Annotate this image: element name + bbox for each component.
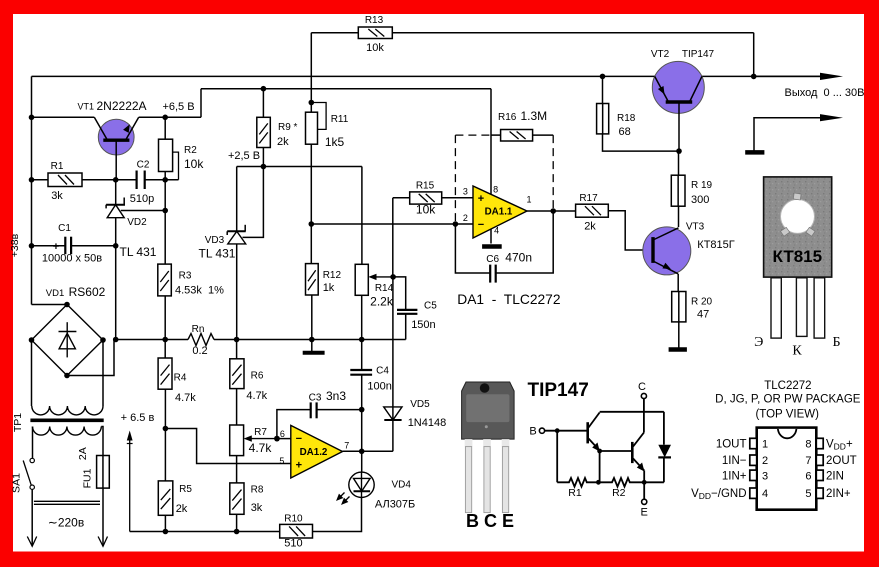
resistor R8 3k: [230, 483, 264, 514]
wire R17 to VT3 base: [608, 211, 653, 250]
potentiometer R7 4.7k: [230, 425, 273, 456]
node R7 wiper pin6: [274, 436, 280, 442]
svg-text:C4: C4: [376, 366, 389, 377]
svg-text:Rn: Rn: [192, 324, 205, 335]
svg-text:TP1: TP1: [12, 413, 24, 432]
svg-text:VT3: VT3: [686, 222, 705, 233]
svg-text:DA1.1: DA1.1: [485, 207, 513, 218]
node R14/C4: [359, 337, 365, 343]
wire +6.5V rail: [201, 88, 491, 90]
node VT2 collector: [676, 148, 682, 154]
resistor R13: [358, 15, 392, 54]
svg-text:Э: Э: [754, 335, 763, 350]
wire bridge bottom jog to gnd bus: [67, 340, 114, 376]
svg-text:8: 8: [493, 185, 498, 195]
svg-text:B: B: [529, 426, 536, 438]
wire VD5 bottom: [392, 420, 394, 451]
node VD3/R6: [234, 337, 240, 343]
svg-text:+38в: +38в: [9, 233, 21, 257]
node bus C1: [29, 243, 35, 249]
node DA1.1 pin2 right: [453, 221, 459, 227]
node +6.5V rail R9: [261, 86, 267, 92]
wire R6 to R7: [236, 389, 238, 425]
wire C3 right: [317, 409, 362, 411]
svg-text:1N4148: 1N4148: [408, 417, 447, 429]
node VT1 base: [113, 177, 119, 183]
TIP147 package photo: [462, 382, 514, 531]
capacitor C1 10000x50: [42, 223, 102, 265]
node gnd symbol: [309, 337, 315, 343]
svg-text:1k: 1k: [323, 282, 335, 294]
wire VD2 ref: [121, 210, 165, 212]
capacitor C4 100n: [350, 366, 392, 393]
ground bar DA1.1 pin4: [482, 244, 502, 249]
svg-text:R11: R11: [331, 114, 349, 125]
svg-text:4.53k 1%: 4.53k 1%: [175, 285, 224, 297]
svg-text:5: 5: [279, 456, 284, 466]
svg-text:R15: R15: [416, 181, 435, 192]
svg-text:R 19: R 19: [691, 180, 713, 191]
svg-text:∼220в: ∼220в: [48, 516, 84, 530]
capacitor C2 510p: [130, 160, 154, 206]
transistor VT2 TIP147: [651, 49, 715, 151]
svg-text:R14: R14: [375, 283, 394, 294]
wire DA1.2 out: [343, 450, 393, 452]
svg-text:4.7k: 4.7k: [249, 441, 273, 455]
node DA1.1 out: [550, 208, 556, 214]
svg-text:R3: R3: [179, 271, 192, 282]
svg-text:4.7k: 4.7k: [246, 390, 267, 402]
svg-text:R5: R5: [179, 484, 192, 495]
svg-text:−: −: [478, 219, 484, 231]
svg-text:10000 x 50в: 10000 x 50в: [42, 253, 102, 265]
node C3/C4/VD5 link: [359, 407, 365, 413]
svg-text:10k: 10k: [366, 42, 384, 54]
mains arrow left: [27, 537, 36, 547]
svg-text:3: 3: [463, 187, 468, 197]
svg-text:Б: Б: [832, 335, 840, 350]
svg-text:R4: R4: [174, 373, 187, 384]
svg-text:DA1 - TLC2272: DA1 - TLC2272: [457, 292, 560, 307]
wire FU1 down: [102, 488, 104, 546]
wire R14 bottom: [361, 295, 363, 370]
wire C5 top link: [393, 277, 406, 310]
svg-text:3k: 3k: [51, 190, 63, 202]
svg-text:3: 3: [762, 470, 768, 482]
svg-text:+ 6.5 в: + 6.5 в: [121, 412, 155, 424]
svg-text:470n: 470n: [505, 251, 532, 265]
svg-text:TL 431: TL 431: [120, 245, 157, 259]
svg-text:+: +: [53, 241, 59, 253]
node R11 top: [309, 100, 315, 106]
svg-text:R7: R7: [254, 427, 267, 438]
node R4/R5: [163, 426, 169, 432]
wiper arrow R7: [244, 435, 277, 441]
svg-text:R1: R1: [568, 487, 582, 499]
resistor R17 2k: [576, 193, 609, 233]
wire +2.5V line: [237, 166, 362, 168]
svg-text:+6,5 В: +6,5 В: [162, 101, 194, 113]
svg-text:КТ815Г: КТ815Г: [697, 239, 734, 251]
wire DA1.2 out to VD4: [361, 451, 363, 472]
svg-text:10k: 10k: [416, 203, 436, 217]
node +6.5V: [162, 115, 168, 121]
svg-text:+2,5 В: +2,5 В: [228, 150, 260, 162]
wire R12 top lead: [310, 224, 312, 264]
wire VT1 emitter to +6.5V node: [139, 116, 201, 118]
svg-text:TLC2272: TLC2272: [764, 380, 811, 392]
node bridge bottom: [64, 373, 70, 379]
wire gnd bus right: [214, 339, 406, 341]
wire gnd bus left: [116, 339, 188, 341]
capacitor C6 470n: [486, 251, 532, 283]
capacitor C3 3n3: [309, 389, 347, 418]
wire +6.5V to R2: [164, 117, 166, 139]
wire R9 bottom: [262, 148, 264, 167]
svg-text:C2: C2: [137, 160, 150, 171]
resistor R4 4.7k: [158, 358, 196, 404]
resistor R5 2k: [158, 481, 192, 515]
resistor R1 3k: [48, 161, 82, 202]
svg-text:2IN: 2IN: [826, 470, 844, 482]
wire pin2 line: [311, 223, 455, 225]
resistor R11 1k5: [306, 103, 349, 150]
svg-text:R1: R1: [51, 161, 64, 172]
svg-text:VT1: VT1: [78, 102, 95, 112]
wire node down to R3 node: [164, 180, 166, 211]
svg-text:1: 1: [762, 439, 768, 451]
wire R19 bottom: [678, 206, 680, 227]
wire C4 bottom: [361, 375, 363, 452]
resistor R9 2k: [257, 117, 298, 148]
svg-text:R2: R2: [612, 487, 626, 499]
svg-text:C1: C1: [58, 223, 71, 234]
wire R9 top: [262, 89, 264, 118]
svg-text:10k: 10k: [184, 157, 204, 171]
wire primary left down: [32, 427, 34, 459]
svg-text:1IN−: 1IN−: [722, 455, 747, 467]
wire R11 top lead: [310, 103, 312, 113]
svg-text:VD3: VD3: [205, 235, 225, 246]
svg-text:TIP147: TIP147: [528, 380, 589, 401]
svg-text:R10: R10: [284, 514, 303, 525]
wire R12 bottom: [311, 295, 313, 340]
resistor R14 2.2k: [355, 264, 394, 308]
svg-text:R18: R18: [617, 113, 636, 124]
svg-text:1.3M: 1.3M: [521, 109, 548, 123]
svg-text:2A: 2A: [77, 447, 89, 460]
zener VD3 TL431: [199, 225, 246, 340]
wire R20 bottom: [678, 322, 680, 348]
resistor R6 4.7k: [230, 359, 268, 402]
mains double line: [34, 500, 100, 502]
TLC2272 DIP pinout: [691, 380, 861, 510]
svg-text:1OUT: 1OUT: [716, 439, 747, 451]
resistor R12 1k: [306, 264, 342, 295]
testpoint arrow +6.5v: [127, 431, 133, 532]
svg-text:C: C: [638, 381, 646, 393]
svg-text:R2: R2: [184, 145, 197, 156]
resistor R19 300: [671, 175, 712, 206]
node R5 bottom bus: [163, 529, 169, 535]
wire wiper node to VD5: [392, 277, 394, 420]
node R8 bottom bus: [234, 529, 240, 535]
ground symbol mid: [303, 340, 325, 353]
wire top rail to output: [32, 75, 827, 77]
wire pin2 into opamp: [455, 223, 473, 225]
node bridge left: [29, 337, 35, 343]
node DA1.1 pin2 left: [309, 221, 315, 227]
svg-text:C6: C6: [486, 254, 499, 265]
wire bus to R1: [32, 179, 49, 181]
resistor R3 4.53k: [158, 264, 224, 296]
svg-text:К: К: [792, 344, 802, 359]
wire R4 bottom: [164, 389, 166, 481]
wire R15 left lead: [393, 197, 410, 199]
wire R13 top link: [311, 32, 753, 34]
dashed box DA1.1 package: [455, 135, 553, 224]
resistor Rn 0.2 zigzag: [188, 324, 214, 357]
svg-text:3n3: 3n3: [326, 389, 346, 403]
wire bridge left down to winding: [31, 340, 33, 406]
svg-text:R9 *: R9 *: [278, 122, 298, 133]
wire R16 right lead: [533, 134, 554, 136]
svg-text:2N2222A: 2N2222A: [97, 99, 147, 113]
wire R16 left lead: [491, 134, 501, 136]
resistor R10 510: [280, 514, 313, 550]
output arrow plus: [754, 73, 843, 80]
node R14 wiper: [390, 274, 396, 280]
svg-text:R12: R12: [323, 270, 342, 281]
svg-text:−: −: [296, 433, 302, 445]
resistor R16 1.3M: [498, 109, 547, 141]
svg-text:6: 6: [280, 429, 285, 439]
svg-text:510: 510: [284, 538, 302, 550]
wire VD3 ref: [243, 167, 264, 238]
transformer TP1 primary winding: [33, 427, 102, 436]
op-amp DA1.1: [463, 185, 532, 239]
wire R15 left drop: [392, 198, 394, 277]
wire primary right down: [101, 427, 103, 456]
wire R13 left drop: [310, 33, 312, 103]
wire to DA1.2 pin5: [165, 429, 290, 464]
svg-text:1: 1: [526, 195, 531, 205]
wire R3 bottom: [164, 296, 166, 358]
svg-text:R16: R16: [498, 112, 517, 123]
svg-text:510p: 510p: [130, 193, 154, 205]
node DA1.2 out: [359, 449, 365, 455]
wire +38V to VT1 collector: [32, 116, 95, 118]
wire +2.5V to VD3: [236, 167, 238, 232]
resistor R15 10k: [410, 181, 442, 217]
svg-text:1k5: 1k5: [325, 135, 345, 149]
svg-text:C5: C5: [424, 301, 437, 312]
svg-text:6: 6: [805, 470, 811, 482]
svg-text:DA1.2: DA1.2: [300, 447, 328, 458]
svg-text:0.2: 0.2: [192, 345, 207, 357]
wire R2 bottom: [164, 172, 166, 180]
wire bus corner to bridge top: [32, 304, 68, 306]
node bridge right: [100, 337, 106, 343]
svg-text:1IN+: 1IN+: [722, 470, 747, 482]
wire R19 top lead: [678, 151, 680, 175]
resistor R18 68: [597, 104, 636, 139]
svg-text:FU1: FU1: [82, 468, 94, 488]
bridge rectifier VD1 RS602: [32, 305, 104, 376]
wire gnd column down: [115, 246, 117, 340]
svg-text:7: 7: [344, 441, 349, 451]
svg-text:VD1: VD1: [46, 288, 64, 299]
svg-text:(TOP VIEW): (TOP VIEW): [755, 409, 819, 421]
svg-text:2.2k: 2.2k: [370, 295, 394, 309]
wire R8 bottom: [236, 514, 238, 531]
wire C5 bottom: [405, 314, 407, 340]
svg-text:5: 5: [805, 488, 811, 500]
svg-text:D, JG, P, OR PW PACKAGE: D, JG, P, OR PW PACKAGE: [715, 394, 861, 406]
svg-text:VD2: VD2: [127, 217, 147, 228]
svg-text:R8: R8: [251, 485, 264, 496]
node rail R18 top: [600, 74, 606, 80]
mains arrow right: [98, 537, 107, 547]
node C3/pin6: [274, 436, 280, 442]
node bus R1: [29, 177, 35, 183]
LED VD4 AL307B: [337, 472, 415, 510]
wire bottom bus right: [313, 498, 362, 532]
node R2 bottom: [162, 177, 168, 183]
wire R5 bottom: [164, 515, 166, 531]
capacitor C5 150n: [397, 301, 437, 332]
svg-text:АЛ307Б: АЛ307Б: [375, 499, 415, 511]
wire R18 bottom: [603, 134, 680, 151]
svg-text:4.7k: 4.7k: [175, 392, 196, 404]
wire +2.5V down to R14: [361, 167, 363, 265]
svg-text:SA1: SA1: [11, 473, 23, 493]
wire +38V left bus: [31, 76, 33, 304]
wire C6 to output: [496, 211, 554, 273]
wire pin8 riser: [490, 89, 492, 195]
svg-text:2OUT: 2OUT: [826, 455, 857, 467]
switch SA1: [23, 458, 34, 489]
diode VD5 1N4148: [384, 399, 447, 429]
zener VD2 TL431: [106, 180, 157, 259]
svg-text:Выход 0 ... 30В: Выход 0 ... 30В: [785, 87, 865, 99]
wire DA1.1 output: [527, 210, 576, 212]
wire VT3 emitter lead: [677, 274, 679, 292]
resistor R2 10k: [159, 139, 205, 180]
svg-text:2k: 2k: [584, 221, 596, 233]
transformer core: [30, 418, 103, 422]
svg-text:RS602: RS602: [69, 285, 106, 299]
wire R3 node down: [164, 211, 166, 265]
wire C1 to gnd column: [71, 245, 116, 247]
svg-text:4: 4: [762, 488, 768, 500]
svg-text:3k: 3k: [251, 502, 263, 514]
TIP147 internal schematic: [539, 393, 671, 504]
node gnd bus bridge: [113, 337, 119, 343]
svg-text:2: 2: [762, 455, 768, 467]
svg-text:2k: 2k: [277, 136, 289, 148]
wire R18 top lead: [602, 76, 604, 103]
transistor VT3 KT815G: [643, 222, 735, 275]
wire R1 to VT1 base: [82, 179, 137, 181]
wire pin2 to C6: [455, 224, 490, 273]
ground symbol output: [745, 150, 764, 155]
svg-text:8: 8: [805, 439, 811, 451]
wiper arrow R14: [368, 274, 393, 280]
node bridge top: [64, 302, 70, 308]
svg-text:2k: 2k: [176, 503, 188, 515]
wire DA1.1 pin4: [490, 229, 492, 244]
svg-text:300: 300: [691, 194, 709, 206]
svg-text:150n: 150n: [411, 319, 435, 331]
output arrow minus: [754, 114, 843, 151]
wire R15 to pin3: [442, 197, 473, 199]
wire C3 left: [277, 410, 311, 439]
wire bottom bus left: [130, 531, 280, 533]
svg-text:100n: 100n: [367, 381, 391, 393]
svg-text:B C E: B C E: [466, 511, 514, 531]
wire R7 to R8: [236, 456, 238, 483]
svg-text:R 20: R 20: [691, 297, 713, 308]
svg-text:4: 4: [494, 226, 499, 236]
wire bus to C1: [32, 245, 66, 247]
svg-text:68: 68: [619, 126, 631, 138]
svg-text:VD5: VD5: [410, 399, 430, 410]
wire R13 right drop: [753, 33, 755, 77]
wire +6.5V corner drop: [200, 89, 202, 118]
wire R6 top: [236, 340, 238, 359]
wire C2 to R2 node: [145, 179, 179, 181]
transistor VT1 2N2222A: [78, 99, 147, 180]
ground symbol R20: [669, 347, 687, 352]
svg-text:7: 7: [805, 455, 811, 467]
svg-text:E: E: [641, 507, 648, 519]
svg-text:C3: C3: [309, 393, 322, 404]
svg-text:2IN+: 2IN+: [826, 488, 851, 500]
svg-text:VT2: VT2: [651, 49, 670, 60]
wire SA1 down: [31, 489, 33, 546]
node R3 top: [162, 208, 168, 214]
wire R11 bottom: [310, 144, 312, 224]
transformer TP1 secondary winding: [32, 406, 103, 415]
resistor R20 47: [672, 292, 713, 322]
svg-text:2: 2: [463, 213, 468, 223]
svg-text:+: +: [478, 193, 484, 205]
svg-text:КТ815: КТ815: [773, 247, 823, 266]
svg-text:+: +: [296, 460, 302, 472]
svg-text:47: 47: [697, 309, 709, 321]
node R3 bottom: [162, 337, 168, 343]
op-amp DA1.2: [279, 425, 349, 478]
svg-text:TL 431: TL 431: [199, 247, 236, 261]
node rail R13 right: [751, 74, 757, 80]
node +38V/VT1: [29, 115, 35, 121]
svg-text:R13: R13: [365, 15, 384, 26]
fuse FU1 2A: [97, 456, 110, 489]
svg-text:VD4: VD4: [392, 480, 412, 491]
node +2.5V: [261, 164, 267, 170]
svg-text:R17: R17: [579, 193, 598, 204]
svg-text:TIP147: TIP147: [682, 49, 715, 60]
wire bridge right down to winding: [102, 340, 104, 406]
wire pin6 into opamp: [277, 438, 291, 440]
node VD2/C1: [113, 243, 119, 249]
svg-text:R6: R6: [251, 371, 264, 382]
